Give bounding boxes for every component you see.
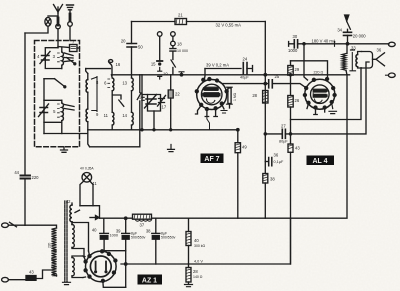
svg-text:42: 42 (66, 199, 71, 204)
svg-text:20: 20 (121, 39, 126, 44)
svg-text:11: 11 (104, 113, 109, 118)
svg-text:AZ 1: AZ 1 (142, 278, 157, 285)
svg-text:14: 14 (122, 113, 127, 118)
svg-text:15: 15 (151, 62, 156, 67)
svg-text:44: 44 (14, 170, 19, 175)
svg-text:28: 28 (252, 93, 257, 98)
svg-text:AL 4: AL 4 (312, 158, 327, 165)
svg-text:20 000: 20 000 (353, 34, 366, 39)
svg-text:25: 25 (275, 74, 280, 79)
svg-text:50: 50 (138, 45, 143, 50)
svg-text:40: 40 (92, 228, 97, 233)
svg-text:0,1µF: 0,1µF (274, 160, 284, 164)
svg-text:AF 7: AF 7 (204, 156, 219, 163)
svg-text:80µF: 80µF (279, 140, 288, 144)
svg-text:110 125 150: 110 125 150 (52, 260, 56, 277)
svg-text:38: 38 (270, 177, 275, 182)
svg-text:30: 30 (293, 34, 298, 39)
svg-text:39 V 0,2 mA: 39 V 0,2 mA (206, 63, 229, 68)
svg-text:32 V 0,55 mA: 32 V 0,55 mA (216, 22, 242, 27)
svg-text:43: 43 (295, 146, 300, 151)
svg-text:16: 16 (116, 62, 121, 67)
svg-text:26: 26 (295, 98, 300, 103)
svg-text:28: 28 (193, 269, 198, 274)
svg-text:34: 34 (337, 28, 342, 33)
svg-text:36: 36 (274, 153, 279, 158)
svg-text:18: 18 (177, 42, 182, 47)
svg-text:29: 29 (295, 67, 300, 72)
svg-text:27: 27 (281, 124, 286, 129)
svg-text:1000: 1000 (288, 48, 298, 53)
svg-text:1 MΩ: 1 MΩ (233, 92, 237, 101)
svg-text:43: 43 (29, 270, 34, 275)
svg-text:140 Ω: 140 Ω (193, 275, 203, 279)
svg-text:10 000: 10 000 (177, 49, 188, 53)
svg-text:33: 33 (351, 46, 356, 51)
svg-text:19: 19 (163, 72, 168, 77)
svg-text:220: 220 (48, 242, 52, 248)
svg-text:41: 41 (92, 181, 97, 186)
svg-text:36: 36 (377, 48, 382, 53)
svg-text:13: 13 (122, 81, 127, 86)
svg-text:49: 49 (242, 145, 247, 150)
svg-text:17: 17 (162, 105, 167, 110)
svg-text:1000: 1000 (110, 234, 118, 238)
svg-text:38: 38 (146, 229, 151, 234)
svg-text:24: 24 (243, 57, 248, 62)
svg-text:180 V 40 mA: 180 V 40 mA (312, 38, 336, 43)
svg-text:21: 21 (178, 13, 183, 18)
svg-text:500/550v: 500/550v (161, 236, 176, 240)
svg-text:22: 22 (175, 92, 180, 97)
svg-text:500/550v: 500/550v (131, 236, 146, 240)
svg-text:4,0 V: 4,0 V (194, 259, 203, 263)
svg-text:40: 40 (194, 238, 199, 243)
svg-text:4V 0,35A: 4V 0,35A (80, 167, 94, 171)
svg-text:220: 220 (32, 175, 40, 180)
svg-text:220 Ω: 220 Ω (314, 71, 324, 75)
svg-text:37: 37 (140, 223, 145, 228)
svg-text:300 kΩ: 300 kΩ (194, 244, 206, 248)
svg-text:16: 16 (139, 95, 144, 100)
svg-text:40µF: 40µF (240, 76, 249, 80)
